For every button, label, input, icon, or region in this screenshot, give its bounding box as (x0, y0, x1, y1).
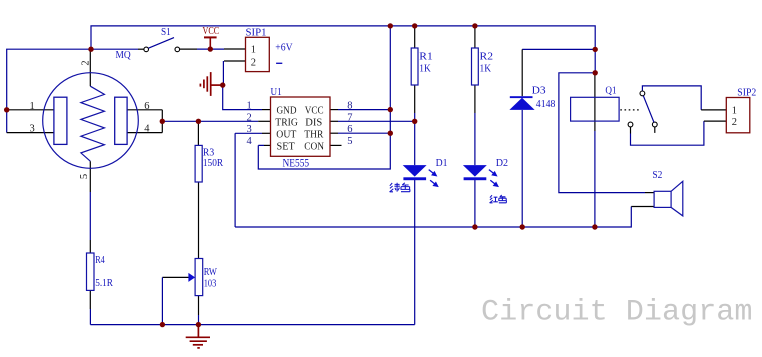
label green (Chinese) char 1 (390, 183, 400, 192)
svg-text:TRIG: TRIG (275, 117, 298, 128)
svg-text:1K: 1K (419, 64, 431, 75)
wire: R3 top leg (197, 121, 199, 145)
wire: MQ pin 4 stub (127, 132, 162, 134)
connector SIP1 (246, 37, 270, 71)
wire: top-left loop down to MQ pins 1/3 (7, 49, 91, 132)
label red (Chinese) char 1 (490, 195, 498, 203)
wire: R4 bottom leg to ground bus (89, 290, 91, 309)
svg-text:SIP1: SIP1 (246, 27, 267, 39)
wire: MQ pin 1 stub (7, 109, 54, 111)
ground symbol bottom (186, 325, 210, 348)
svg-text:1: 1 (732, 105, 737, 116)
connector SIP2 (726, 98, 750, 133)
wire: OUT bus across bottom middle (235, 207, 631, 228)
wire: D3 top to VCC drop (522, 48, 595, 50)
wire: D1 cathode down to ground bus (414, 180, 416, 325)
wire: ground bus bottom left (90, 324, 414, 326)
wire: R2 bottom leg to D2 (474, 85, 476, 113)
junction dot at VCC/SIP1 wire (208, 46, 213, 51)
junction dot ground bus / RW bottom (196, 322, 201, 327)
junction dot node A (D3 top) (593, 47, 598, 52)
speaker S2 horn (671, 181, 683, 216)
svg-text:103: 103 (204, 278, 217, 289)
wire: R2 top leg (474, 26, 476, 48)
wire: MQ pin 2 drop from junction (89, 49, 91, 86)
svg-text:2: 2 (732, 117, 737, 128)
label minus (276, 62, 282, 64)
MQ right electrode plate (115, 97, 127, 144)
svg-text:GND: GND (277, 106, 297, 117)
junction dot U1 pin 8 (388, 107, 393, 112)
svg-text:7: 7 (347, 112, 352, 123)
switch S1 right contact (175, 47, 180, 52)
wire: MQ pin 3 stub (7, 132, 54, 134)
switch S1 left contact (144, 47, 149, 52)
svg-text:2: 2 (247, 112, 252, 123)
LED D1 arrows (429, 170, 438, 187)
wire: speaker bottom stub (631, 206, 654, 208)
junction dot at ground node near SIP1 (220, 82, 225, 87)
svg-text:R2: R2 (480, 51, 494, 62)
svg-text:1: 1 (251, 45, 256, 56)
wire: R1 bottom leg to D1 (414, 85, 416, 113)
svg-text:5: 5 (347, 136, 352, 147)
wire: MQ pin 5 down to R4 (89, 161, 91, 192)
MQ heater zigzag resistor (81, 86, 105, 161)
resistor R2 body (472, 48, 479, 85)
wire: ground node down and right to U1 pin 1 GND (223, 85, 262, 110)
junction dot at MQ pin 1 (4, 107, 9, 112)
ground symbol near SIP1 (rotated left) (200, 72, 222, 96)
resistor R3 body (195, 145, 202, 182)
gas sensor MQ envelope circle (43, 73, 139, 169)
svg-text:3: 3 (30, 124, 35, 135)
svg-text:U1: U1 (271, 86, 282, 98)
wire: relay NO contact to SIP2 pin 2 (630, 127, 632, 134)
wire: RW bottom leg to ground bus (198, 296, 200, 315)
resistor R4 body (87, 253, 95, 290)
svg-text:NE555: NE555 (283, 158, 310, 170)
svg-text:4: 4 (144, 124, 150, 135)
wire: U1 pin 5 CON stub (330, 144, 342, 146)
svg-text:4: 4 (247, 136, 253, 147)
wire: RW wiper to ground bus (162, 276, 188, 278)
junction dot U1 pin 6 (388, 131, 393, 136)
wire: S1 right contact to SIP1 pin 1 (180, 48, 197, 50)
wire: MQ pin 6-4 tie (161, 110, 163, 133)
svg-text:R3: R3 (203, 147, 214, 158)
relay switch common contact (640, 91, 645, 96)
svg-text:CON: CON (304, 141, 324, 152)
LED D2 triangle (463, 165, 487, 177)
junction dot node B (speaker top) (593, 70, 598, 75)
svg-text:S1: S1 (161, 26, 171, 38)
potentiometer RW wiper arrow (188, 273, 195, 282)
junction dot top bus / SET column (388, 23, 393, 28)
junction dot ground bus / wiper (160, 322, 165, 327)
svg-text:S2: S2 (652, 170, 662, 181)
svg-text:2: 2 (81, 60, 92, 65)
relay linkage dotted line (620, 109, 640, 111)
relay switch NC contact (652, 122, 657, 127)
wire: junction to switch S1 left contact (91, 48, 138, 50)
junction dot U1 pin 7 / R1 bottom (412, 119, 417, 124)
speaker S2 body (654, 191, 671, 207)
LED D1 cathode bar (403, 177, 426, 180)
svg-text:1: 1 (247, 101, 252, 112)
svg-text:R1: R1 (419, 51, 433, 62)
wire: U1 pin 4 SET loop down right and up to pin6 column (264, 144, 271, 146)
wire: relay common contact to SIP2 pin 1 (642, 86, 701, 110)
wire: D2 cathode down to OUT bus (474, 180, 476, 227)
wire: SIP1 pin 2 down to ground node (222, 61, 224, 85)
wire: R3 to RW series leg (198, 182, 200, 259)
svg-text:Q1: Q1 (605, 85, 616, 96)
switch S1 lever (148, 38, 174, 49)
svg-text:150R: 150R (203, 158, 223, 169)
junction dot at R3 top (196, 119, 201, 124)
junction dot OUT bus / relay coil (592, 224, 597, 229)
svg-text:VCC: VCC (203, 25, 220, 37)
wire: U1 pin 8 VCC (330, 109, 338, 111)
resistor R1 body (411, 48, 418, 85)
potentiometer RW body (195, 259, 203, 296)
junction dot OUT bus / D3 (520, 224, 525, 229)
svg-text:3: 3 (247, 124, 252, 135)
svg-text:D3: D3 (532, 85, 546, 96)
svg-text:6: 6 (144, 101, 149, 112)
wire: SIP1 pin 2 stub (224, 60, 246, 62)
svg-text:5.1R: 5.1R (95, 278, 113, 289)
svg-text:RW: RW (204, 267, 217, 278)
junction dot at MQ pin6/4 tie (160, 119, 165, 124)
label red (Chinese) char 2 (499, 195, 507, 203)
relay switch NO contact (628, 122, 633, 127)
svg-text:THR: THR (304, 129, 323, 140)
wire: U1 pin 3 OUT to left and down (262, 132, 271, 134)
junction dot at MQ pin2/top bus (88, 47, 93, 52)
svg-text:MQ: MQ (116, 49, 131, 61)
svg-text:D2: D2 (496, 158, 508, 169)
junction dot OUT bus / D2 (472, 224, 477, 229)
svg-text:OUT: OUT (276, 129, 296, 140)
svg-text:5: 5 (79, 174, 90, 179)
svg-text:8: 8 (347, 101, 352, 112)
svg-text:SET: SET (277, 141, 295, 152)
wire: MQ pin 6 stub (127, 109, 162, 111)
svg-text:SIP2: SIP2 (737, 88, 756, 99)
junction dot top bus / R2 (472, 23, 477, 28)
svg-text:2: 2 (251, 57, 256, 68)
wire: speaker top net from node B (559, 73, 645, 193)
wire: relay NC contact stub (654, 127, 656, 133)
MQ left electrode plate (54, 97, 67, 144)
svg-text:D1: D1 (436, 158, 448, 169)
wire: sensor output to U1 pin 2 TRIG (162, 120, 258, 122)
svg-text:4148: 4148 (536, 99, 556, 110)
svg-text:1: 1 (30, 101, 35, 112)
wire: D3 anode down to OUT bus (521, 110, 523, 227)
LED D2 cathode bar (464, 177, 487, 180)
LED D2 arrows (489, 170, 498, 187)
junction dot top bus / R1 (412, 23, 417, 28)
relay Q1 coil box (571, 97, 620, 121)
LED D1 triangle (403, 165, 427, 177)
diode D3 triangle (pointing up) (509, 98, 534, 110)
relay switch lever (643, 96, 654, 123)
wire: relay coil line through box (594, 73, 596, 131)
svg-text:VCC: VCC (305, 106, 324, 117)
label green (Chinese) char 2 (401, 183, 410, 192)
wire: U1 pin 6 THR (330, 132, 338, 134)
op-amp timer U1 NE555 box (271, 97, 331, 156)
svg-text:+6V: +6V (275, 42, 292, 54)
wire: R1 top leg (414, 26, 416, 48)
wire: U1 pin 7 DIS to R1 column (330, 120, 338, 122)
svg-text:1K: 1K (480, 64, 492, 75)
svg-text:DIS: DIS (305, 117, 322, 128)
svg-text:Circuit Diagram: Circuit Diagram (481, 295, 753, 329)
power symbol VCC (204, 36, 217, 38)
svg-text:R4: R4 (95, 255, 105, 266)
svg-text:6: 6 (347, 124, 352, 135)
wire: top VCC bus with left riser and right drop (91, 26, 595, 73)
diode D3 cathode bar (510, 96, 533, 98)
